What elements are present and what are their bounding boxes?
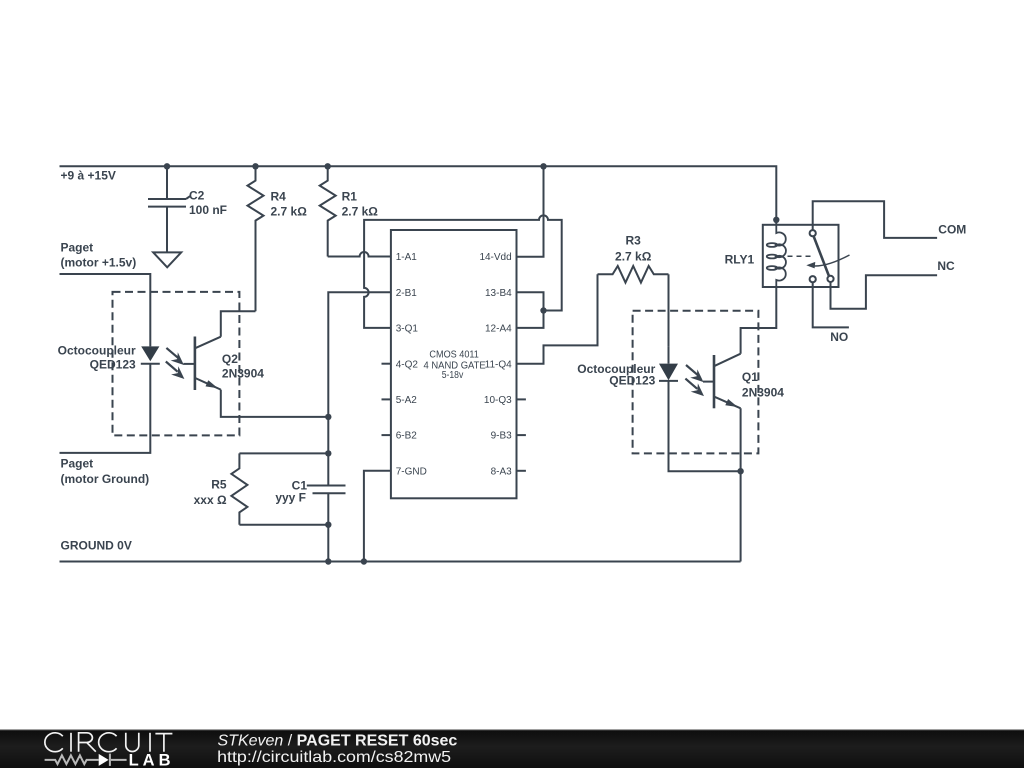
capacitor C2 xyxy=(148,166,227,252)
LED D2 (octocoupler left) xyxy=(141,346,160,363)
svg-text:2-B1: 2-B1 xyxy=(396,288,418,299)
wire NO terminal xyxy=(813,282,849,327)
wire C1 bottom to ground rail xyxy=(327,493,329,561)
svg-text:9-B3: 9-B3 xyxy=(491,431,513,442)
resistor R1 xyxy=(320,166,379,256)
IC U1 CMOS 4011 box xyxy=(391,230,517,498)
wire pins 13-B4 / 12-A4 tie xyxy=(517,292,544,328)
pin stub 6-B2 xyxy=(382,434,391,436)
svg-text:2.7 kΩ: 2.7 kΩ xyxy=(271,204,308,218)
light arrows OC2 xyxy=(166,348,185,379)
pin stub 5-A2 xyxy=(382,398,391,400)
junction pin7/ground rail xyxy=(361,558,367,564)
wire Q1 emitter to ground rail xyxy=(740,408,742,561)
svg-text:Q1: Q1 xyxy=(742,370,758,384)
svg-text:yyy F: yyy F xyxy=(275,491,306,505)
svg-text:2.7 kΩ: 2.7 kΩ xyxy=(615,250,652,264)
resistor R3 xyxy=(598,234,669,283)
svg-text:R5: R5 xyxy=(211,477,227,491)
svg-text:100 nF: 100 nF xyxy=(189,203,227,217)
svg-text:2.7 kΩ: 2.7 kΩ xyxy=(342,204,379,218)
junction R5/C1 bottom xyxy=(325,522,331,528)
svg-text:RLY1: RLY1 xyxy=(725,253,755,267)
resistor R5 xyxy=(194,453,248,524)
svg-text:10-Q3: 10-Q3 xyxy=(484,395,512,406)
svg-text:3-Q1: 3-Q1 xyxy=(396,324,419,335)
svg-text:8-A3: 8-A3 xyxy=(491,466,513,477)
octocoupler OC1 dashed box xyxy=(633,311,759,454)
octocoupler OC2 dashed box xyxy=(113,292,240,436)
svg-text:xxx Ω: xxx Ω xyxy=(194,493,227,507)
pin stub 10-Q3 xyxy=(517,398,526,400)
junction R5/C1 top xyxy=(325,450,331,456)
svg-text:+9 à +15V: +9 à +15V xyxy=(61,169,116,183)
wire COM terminal xyxy=(813,201,937,238)
svg-text:(motor +1.5v): (motor +1.5v) xyxy=(61,255,137,269)
wire pin 2-B1 to R5/C1 top xyxy=(328,292,391,485)
svg-text:2N3904: 2N3904 xyxy=(742,385,784,399)
relay switch NC contact xyxy=(827,276,833,282)
pin stub 9-B3 xyxy=(517,434,526,436)
ground symbol (C2) xyxy=(153,252,181,267)
svg-text:13-B4: 13-B4 xyxy=(485,288,512,299)
junction C1/ground rail xyxy=(325,558,331,564)
junction C2/+V xyxy=(164,163,170,169)
svg-text:Paget: Paget xyxy=(61,241,94,255)
svg-text:CMOS 4011: CMOS 4011 xyxy=(429,350,479,361)
capacitor C1 xyxy=(275,478,345,504)
relay switch NO contact xyxy=(810,276,816,282)
svg-text:4-Q2: 4-Q2 xyxy=(396,359,419,370)
svg-text:5-18v: 5-18v xyxy=(442,370,464,381)
svg-text:Paget: Paget xyxy=(61,456,94,470)
transistor Q1 2N3904 xyxy=(703,354,784,409)
svg-text:Octocoupleur: Octocoupleur xyxy=(58,344,136,358)
wire +V top rail xyxy=(60,166,777,225)
wire Paget (motor +1.5v) to LED anode xyxy=(60,274,151,346)
relay switch common contact xyxy=(810,230,816,236)
wire ground rail GROUND 0V xyxy=(60,561,741,563)
CircuitLab logo resistor-diode glyph xyxy=(45,754,127,766)
relay actuation dashed link xyxy=(788,255,812,257)
wire NC terminal xyxy=(831,275,938,309)
svg-text:14-Vdd: 14-Vdd xyxy=(479,252,511,263)
svg-text:R4: R4 xyxy=(271,190,287,204)
svg-text:NO: NO xyxy=(830,330,848,344)
svg-text:7-GND: 7-GND xyxy=(396,466,427,477)
junction Q2 emitter/pin2 net xyxy=(325,414,331,420)
pin stub 4-Q2 xyxy=(382,363,391,365)
svg-text:GROUND 0V: GROUND 0V xyxy=(61,539,132,553)
svg-text:6-B2: 6-B2 xyxy=(396,431,418,442)
svg-text:C2: C2 xyxy=(189,188,205,202)
junction pins 13/12 xyxy=(540,307,546,313)
svg-text:R3: R3 xyxy=(626,234,642,248)
wire R3 to LED anode (OC1) xyxy=(668,274,670,346)
wire pin 11-Q4 to R3 xyxy=(517,274,598,363)
wire Q1 collector to relay coil xyxy=(741,287,777,353)
svg-text:LAB: LAB xyxy=(129,751,175,768)
wire R5/C1 bottom horizontal xyxy=(239,524,328,526)
wire LED D1 cathode to ground net xyxy=(669,381,741,471)
svg-text:11-Q4: 11-Q4 xyxy=(485,359,512,370)
junction relay coil/+V xyxy=(773,217,779,223)
svg-text:STKeven / PAGET RESET 60sec: STKeven / PAGET RESET 60sec xyxy=(218,732,458,749)
relay motion arrow xyxy=(806,255,849,268)
wire R5/C1 top horizontal xyxy=(239,452,328,454)
relay armature xyxy=(814,236,829,276)
svg-text:QED123: QED123 xyxy=(609,374,655,388)
svg-text:2N3904: 2N3904 xyxy=(222,367,264,381)
junction LED D1 cathode/Q1 emitter xyxy=(737,468,743,474)
footer bar xyxy=(0,729,1024,768)
light arrows OC1 xyxy=(685,365,704,396)
svg-text:COM: COM xyxy=(938,223,966,237)
wire pin 7-GND to ground rail xyxy=(364,471,391,562)
transistor Q2 2N3904 xyxy=(183,337,264,391)
svg-text:http://circuitlab.com/cs82mw5: http://circuitlab.com/cs82mw5 xyxy=(217,749,451,766)
svg-text:QED123: QED123 xyxy=(90,357,136,371)
svg-text:NC: NC xyxy=(937,259,955,273)
svg-text:Q2: Q2 xyxy=(222,352,238,366)
CircuitLab logo CIRCUIT letters xyxy=(45,733,173,752)
junction R4/+V xyxy=(252,163,258,169)
junction Vdd/+V xyxy=(540,163,546,169)
svg-text:R1: R1 xyxy=(342,190,358,204)
pin stub 8-A3 xyxy=(517,470,526,472)
svg-text:(motor Ground): (motor Ground) xyxy=(61,472,150,486)
wire Q2 emitter to pin 2 net xyxy=(221,390,328,417)
relay RLY1 box xyxy=(763,225,839,287)
junction R1/+V xyxy=(325,163,331,169)
wire LED cathode to Paget (motor Ground) xyxy=(60,364,151,453)
svg-text:5-A2: 5-A2 xyxy=(396,395,418,406)
wire R1 to pin 1-A1 (hump over x=364 wire) xyxy=(328,252,391,257)
relay coil xyxy=(767,225,786,288)
wire pin 3-Q1 to pins 13-B4/12-A4 (humps at x=364 vert and x=543.5 cross) xyxy=(364,215,562,328)
wire pin 14-Vdd to +V rail xyxy=(517,166,544,256)
IC U1 pin labels xyxy=(396,252,512,477)
resistor R4 xyxy=(248,166,308,311)
LED D1 (octocoupler right) xyxy=(659,346,678,381)
wire R4 to Q2 collector xyxy=(221,311,256,337)
svg-text:12-A4: 12-A4 xyxy=(485,324,512,335)
svg-text:1-A1: 1-A1 xyxy=(396,252,418,263)
